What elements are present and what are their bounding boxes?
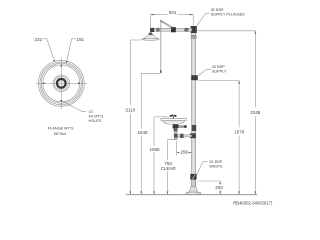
- svg-text:2110: 2110: [126, 108, 136, 113]
- svg-text:32 BSP: 32 BSP: [211, 8, 224, 12]
- svg-text:HOLES: HOLES: [89, 119, 102, 123]
- svg-text:DETAIL: DETAIL: [54, 132, 67, 136]
- svg-text:32 BSP: 32 BSP: [209, 160, 222, 164]
- svg-text:1648: 1648: [137, 130, 148, 135]
- svg-text:1059: 1059: [149, 147, 160, 152]
- svg-text:601: 601: [169, 10, 177, 15]
- svg-text:10: 10: [89, 110, 93, 114]
- svg-text:203: 203: [215, 185, 223, 190]
- svg-text:191: 191: [77, 37, 85, 42]
- svg-text:SUPPLY PLUGGED: SUPPLY PLUGGED: [211, 12, 246, 16]
- svg-text:232: 232: [34, 37, 42, 42]
- svg-text:1578: 1578: [234, 129, 245, 134]
- svg-text:2248: 2248: [250, 110, 261, 115]
- svg-text:256: 256: [180, 150, 188, 155]
- svg-text:WASTE: WASTE: [209, 165, 223, 169]
- svg-text:SUPPLY: SUPPLY: [212, 69, 227, 73]
- svg-text:FLANGE MT'G: FLANGE MT'G: [48, 127, 73, 131]
- svg-text:32 BSP: 32 BSP: [212, 65, 225, 69]
- svg-text:RB48302-340/20(17): RB48302-340/20(17): [233, 201, 273, 206]
- svg-text:CLEAR: CLEAR: [161, 166, 177, 171]
